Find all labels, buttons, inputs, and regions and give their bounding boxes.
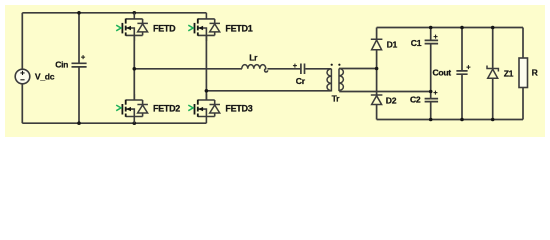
wire rectifier top rail: [377, 27, 523, 29]
transformer Tr: [327, 64, 343, 104]
junction C1 top on output top rail: [429, 26, 433, 30]
svg-text:Cr: Cr: [296, 76, 306, 86]
wire resonant tank top (node A to Cr): [134, 68, 242, 70]
wire D1 D2 string vertical: [376, 28, 378, 40]
svg-text:FETD1: FETD1: [225, 24, 252, 34]
wire Cout branch: [461, 28, 463, 71]
svg-text:Z1: Z1: [504, 68, 514, 78]
capacitor Cr: [293, 61, 306, 86]
svg-text:C1: C1: [411, 38, 422, 48]
transistor FETD2 (MOSFET with body diode): [116, 94, 180, 123]
transistor FETD1 (MOSFET with body diode): [188, 13, 252, 41]
inductor Lr: [242, 53, 268, 72]
wire top rail: [22, 12, 206, 14]
junction Z1 bottom on output bottom rail: [491, 118, 495, 122]
wire bottom rail: [22, 122, 206, 124]
node B dot on right leg: [205, 89, 209, 93]
transistor FETD3 (MOSFET with body diode): [188, 94, 252, 123]
wire Cin branch: [78, 13, 80, 64]
svg-text:Tr: Tr: [332, 94, 340, 104]
svg-text:Lr: Lr: [249, 53, 258, 63]
zener diode Z1: [487, 66, 514, 79]
svg-text:Cin: Cin: [55, 59, 68, 69]
svg-text:V_dc: V_dc: [35, 71, 55, 81]
junction FETD2 source on bottom rail: [133, 121, 137, 125]
svg-text:Cout: Cout: [433, 68, 452, 78]
junction Z1 top on output top rail: [491, 26, 495, 30]
wire left bridge leg: [133, 35, 135, 100]
capacitor Cin: [55, 52, 86, 69]
diode D1: [371, 39, 398, 50]
svg-text:D2: D2: [386, 95, 397, 105]
svg-text:FETD3: FETD3: [225, 103, 252, 113]
wire primary return node B to primary bottom: [206, 90, 330, 92]
svg-text:FETD2: FETD2: [153, 103, 180, 113]
junction C2 bottom on output bottom rail: [429, 118, 433, 122]
svg-text:C2: C2: [410, 94, 421, 104]
wire Z1 branch: [492, 28, 494, 69]
junction secondary bottom to C1-C2 midpoint: [429, 90, 433, 94]
svg-text:D1: D1: [387, 40, 398, 50]
wire secondary bottom lead to C1/C2 midpoint: [339, 91, 431, 93]
svg-text:FETD: FETD: [153, 24, 176, 34]
junction Cout top on output top rail: [460, 26, 464, 30]
junction Cout bottom on output bottom rail: [460, 118, 464, 122]
wire right bridge leg: [205, 35, 207, 100]
junction FETD drain on top rail: [133, 11, 137, 15]
wire left rail upper: [21, 13, 23, 69]
junction secondary top to D1-D2 midpoint: [375, 67, 379, 71]
node A dot on left leg: [133, 67, 137, 71]
wire rectifier bottom rail: [377, 119, 523, 121]
diode D2: [371, 95, 397, 105]
wire Cr to transformer primary top: [305, 68, 331, 70]
wire left rail lower: [21, 84, 23, 123]
transistor FETD (MOSFET with body diode): [116, 13, 176, 41]
wire R branch: [522, 28, 524, 59]
resistor R: [519, 58, 539, 88]
capacitor C1: [411, 32, 439, 48]
wire node Y vertical C1 to C2: [430, 28, 432, 41]
voltage source V_dc: [15, 69, 55, 84]
capacitor Cout: [433, 63, 472, 78]
capacitor C2: [410, 88, 438, 105]
wire secondary top lead to rectifier: [339, 68, 376, 70]
junction Cin bottom on bottom rail: [77, 121, 81, 125]
junction Cin top on top rail: [77, 11, 81, 15]
